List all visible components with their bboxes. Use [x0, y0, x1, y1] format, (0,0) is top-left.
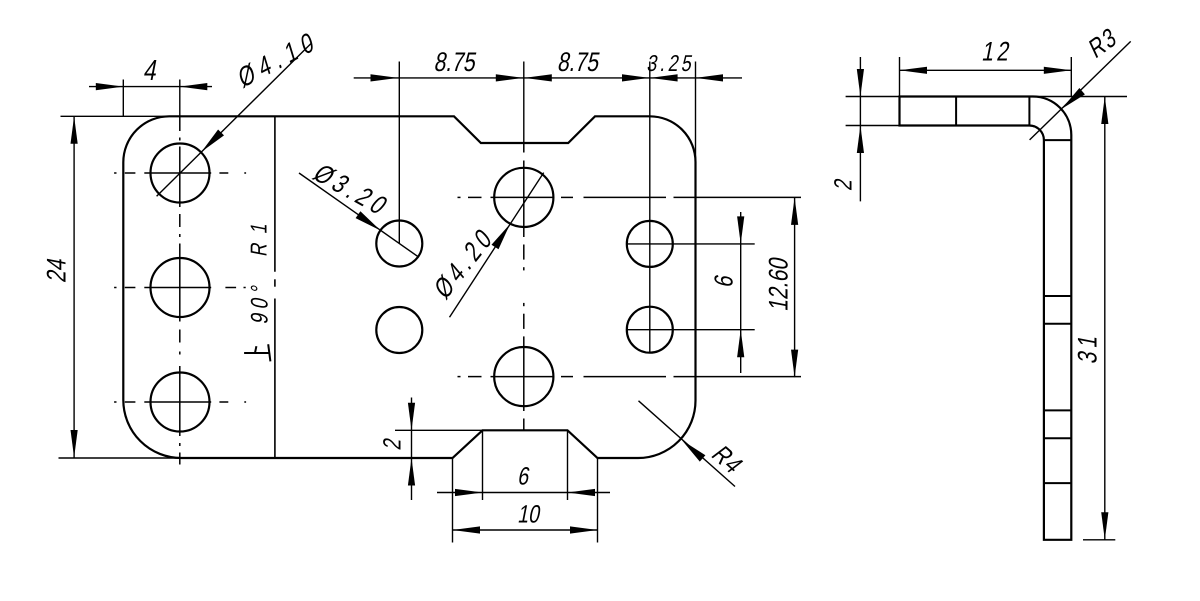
centerline A1 horizontal: [114, 172, 116, 174]
centerline C1 horizontal: [458, 196, 461, 198]
dim chain extension x695.5: [695, 62, 697, 162]
dim 6 line: [437, 492, 610, 494]
leader Ø4.20 line: [450, 173, 544, 318]
dim chain extension x398: [398, 62, 400, 244]
centerline D1 horizontal: [627, 243, 755, 245]
dim 6R line: [740, 212, 742, 373]
leader Ø3.20 arrow: [356, 211, 381, 230]
svg-text:31: 31: [1073, 329, 1103, 366]
dim 10 extension right: [597, 458, 599, 543]
dim 2 arrow bottom: [408, 458, 415, 486]
dim 6R arrow bottom: [737, 330, 744, 358]
hole A2 Ø4.10 mid-left: [151, 258, 210, 317]
hole D1 right-upper: [627, 221, 673, 267]
dim 10 arrow left: [453, 526, 481, 533]
side view division y410.4: [1044, 409, 1071, 411]
dim 24 arrow bottom: [71, 430, 78, 458]
dim 2S line: [859, 57, 861, 201]
centerline D2 horizontal: [627, 329, 755, 331]
side bottom-of-leg extension line: [846, 125, 900, 127]
svg-text:R 1: R 1: [247, 218, 272, 258]
leader Ø4.20 arrow: [492, 224, 511, 249]
centerline C2 horizontal: [458, 376, 461, 378]
dim 8.75-1 arrow right: [496, 74, 524, 81]
hole B1 Ø3.20 upper: [376, 221, 422, 267]
dim 12.60 arrow top: [791, 197, 798, 225]
dim 2 line: [411, 398, 413, 501]
hole A3 Ø4.10 bottom-left: [151, 373, 210, 432]
leader Ø4.10 line: [157, 43, 312, 196]
svg-text:3.25: 3.25: [645, 51, 697, 76]
dim 2 arrow top: [408, 403, 415, 431]
dim 12 arrow right: [1044, 67, 1072, 74]
dim 3.25 arrow left: [650, 74, 678, 81]
dim 4 arrow right: [180, 83, 208, 90]
dim 31 arrow top: [1101, 97, 1108, 125]
svg-text:8.75: 8.75: [432, 48, 479, 78]
side view bend tangent horizontal: [1044, 139, 1071, 141]
hole C1 Ø4.20 upper-center: [494, 168, 553, 227]
centerline col3 vertical: [523, 143, 525, 153]
leader Ø4.10 arrow: [202, 130, 225, 152]
dim 4 line: [89, 86, 212, 88]
dim 4 arrow left: [96, 83, 124, 90]
dim 6 extension right: [567, 430, 569, 500]
dim chain line: [354, 77, 742, 79]
centerline A2 horizontal: [114, 287, 116, 289]
hole D2 right-lower: [627, 307, 673, 353]
side view bend tangent vertical: [1028, 97, 1030, 126]
dim 12 extension left: [899, 57, 901, 97]
svg-text:90°: 90°: [246, 278, 274, 326]
dim 24 line: [73, 116, 75, 457]
dim 24 arrow top: [71, 116, 78, 144]
leader R3 arrow: [1061, 88, 1085, 109]
leader R3 line: [1030, 41, 1131, 139]
leader R4 arrow: [682, 440, 705, 461]
centerline A3 horizontal: [114, 401, 116, 403]
dim 6R arrow top: [737, 216, 744, 244]
svg-text:12.60: 12.60: [764, 255, 794, 313]
dim 8.75-2 arrow left: [524, 74, 552, 81]
plate outline (front view): [123, 116, 695, 458]
dim 24 extension top: [61, 115, 170, 117]
symbol perpendicular: [244, 352, 269, 354]
dim 12 line: [900, 69, 1072, 71]
dim chain extension x523.8: [523, 62, 525, 144]
dim 12.60 line: [794, 197, 796, 377]
dim 31 line: [1104, 97, 1106, 540]
centerline col4 vertical: [649, 62, 651, 354]
leader R4 line: [639, 401, 736, 487]
bend line: [274, 116, 276, 271]
side view profile outline: [900, 97, 1072, 540]
dim 6 extension left: [482, 430, 484, 500]
dim 2S arrow top: [857, 69, 864, 97]
hole B2 Ø3.20 lower: [376, 307, 422, 353]
dim 2 extension line: [395, 429, 483, 431]
dim 4 extension line right: [179, 80, 181, 117]
dim 6 arrow right: [568, 489, 596, 496]
dim 31 extension bottom tick: [1083, 539, 1115, 541]
side view division y323.8: [1044, 323, 1071, 325]
dim 6 arrow left: [455, 489, 483, 496]
side view division line leg-1: [955, 97, 957, 126]
dim 12 arrow left: [900, 67, 928, 74]
dim 10 arrow right: [570, 526, 598, 533]
side outer edge extension up: [1070, 57, 1072, 97]
hole A1 Ø4.10 top-left: [151, 144, 210, 203]
dim 24 extension bottom: [59, 457, 182, 459]
dim 3.25 arrow right: [696, 74, 724, 81]
side view division y483.1: [1044, 482, 1071, 484]
side top edge extension line: [846, 96, 1127, 98]
dim 12.60 arrow bottom: [791, 350, 798, 378]
dim 31 arrow bottom: [1101, 512, 1108, 540]
hole C2 Ø4.20 lower-center: [494, 347, 553, 406]
dim 10 extension left: [452, 458, 454, 543]
dim 2S arrow bottom: [857, 126, 864, 154]
dim 4 extension line left: [122, 80, 124, 117]
leader Ø3.20 line: [299, 173, 418, 257]
dim 10 line: [453, 529, 598, 531]
side view division y296: [1044, 295, 1071, 297]
dim 8.75-1 arrow left: [371, 74, 399, 81]
dim 8.75-2 arrow right: [622, 74, 650, 81]
side view division y438.2: [1044, 437, 1071, 439]
svg-text:8.75: 8.75: [556, 48, 603, 78]
svg-text:12: 12: [980, 37, 1015, 67]
centerline col1 vertical: [179, 116, 181, 131]
